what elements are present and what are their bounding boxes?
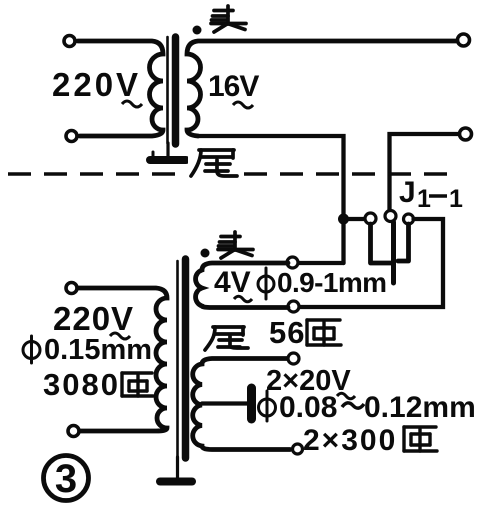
wire relay right contact to 4V winding bottom xyxy=(299,219,443,307)
label 2x20V xyxy=(266,365,355,399)
character tou (head) T2 xyxy=(218,232,253,258)
terminal right (16V bottom via relay pole) xyxy=(460,128,472,140)
transformer T1 secondary winding 16V xyxy=(187,41,457,136)
label 220V bottom xyxy=(53,300,134,339)
label 16V xyxy=(208,70,259,108)
character tou (head) T1 xyxy=(211,6,246,32)
terminal left-bottom T2 xyxy=(68,426,79,437)
terminal on 4V bottom lead xyxy=(288,301,299,312)
relay J1-1 left contact xyxy=(365,213,376,224)
svg-text:2×300: 2×300 xyxy=(303,424,397,457)
dot marker head T1 xyxy=(193,26,202,35)
ground T2 xyxy=(160,457,192,482)
svg-text:56: 56 xyxy=(269,315,305,350)
label 0.08-0.12mm xyxy=(279,391,476,424)
terminal on 2x20V top lead xyxy=(288,353,299,364)
transformer T2 core xyxy=(178,259,186,458)
character za (turns) after 2x300 xyxy=(404,427,437,451)
terminal left-top T2 xyxy=(66,283,77,294)
relay blade right xyxy=(398,224,409,261)
label 4V xyxy=(214,266,252,302)
center tap thick bar terminal xyxy=(247,388,256,419)
svg-text:4V: 4V xyxy=(214,266,251,299)
terminal bottom-left T1 xyxy=(66,131,77,142)
svg-text:J: J xyxy=(399,176,416,209)
node A junction dot xyxy=(338,214,349,225)
svg-text:16V: 16V xyxy=(208,70,259,103)
label J1-1 xyxy=(399,176,463,213)
relay J1-1 middle contact xyxy=(385,211,396,222)
dashed separation line xyxy=(8,172,451,176)
phi symbol for 0.9-1mm xyxy=(258,268,274,299)
terminal on 4V top lead xyxy=(287,257,298,268)
character za (turns) after 3080 xyxy=(122,373,153,396)
svg-text:0.12mm: 0.12mm xyxy=(364,391,476,424)
svg-text:3: 3 xyxy=(55,457,77,501)
transformer T2 winding 4V xyxy=(196,263,288,308)
terminal on 2x20V bottom lead xyxy=(293,444,303,454)
relay J1-1 right contact xyxy=(404,214,414,224)
wire relay middle pole up to right terminal xyxy=(390,134,460,211)
character za (turns) after 56 xyxy=(307,320,341,345)
terminal top-right xyxy=(458,34,470,46)
wire 16V bottom lead to node A xyxy=(198,136,344,263)
svg-text:220V: 220V xyxy=(53,300,134,337)
relay blade middle xyxy=(391,222,396,283)
character wei (tail) T2 xyxy=(205,327,248,350)
svg-text:1: 1 xyxy=(449,185,463,213)
svg-text:0.9-1mm: 0.9-1mm xyxy=(277,267,386,298)
transformer T2 winding 2x20V xyxy=(193,359,290,450)
wire node A down to 4V winding top lead xyxy=(288,261,344,265)
center tap lead of 2x20V xyxy=(202,401,247,405)
character wei (tail) T1 xyxy=(188,144,244,180)
svg-text:1: 1 xyxy=(417,185,431,213)
figure number circle 3 xyxy=(44,456,89,501)
svg-text:0.08: 0.08 xyxy=(279,391,337,424)
terminal top-left T1 xyxy=(64,36,75,47)
label 220V top xyxy=(52,66,142,107)
phi symbol for 0.08-0.12mm xyxy=(259,391,276,421)
dot marker head T2 xyxy=(201,249,210,258)
ground T1 xyxy=(150,143,186,160)
svg-text:220V: 220V xyxy=(52,66,141,103)
wire node A to relay left contact xyxy=(348,217,364,221)
transformer T2 primary winding 220V xyxy=(78,288,167,431)
phi symbol for 0.15mm xyxy=(23,336,40,363)
transformer T1 primary winding 220V xyxy=(78,41,163,136)
svg-text:3080: 3080 xyxy=(43,367,120,402)
svg-text:0.15mm: 0.15mm xyxy=(44,334,152,366)
core T1 xyxy=(168,37,176,144)
relay blade left xyxy=(371,224,393,263)
